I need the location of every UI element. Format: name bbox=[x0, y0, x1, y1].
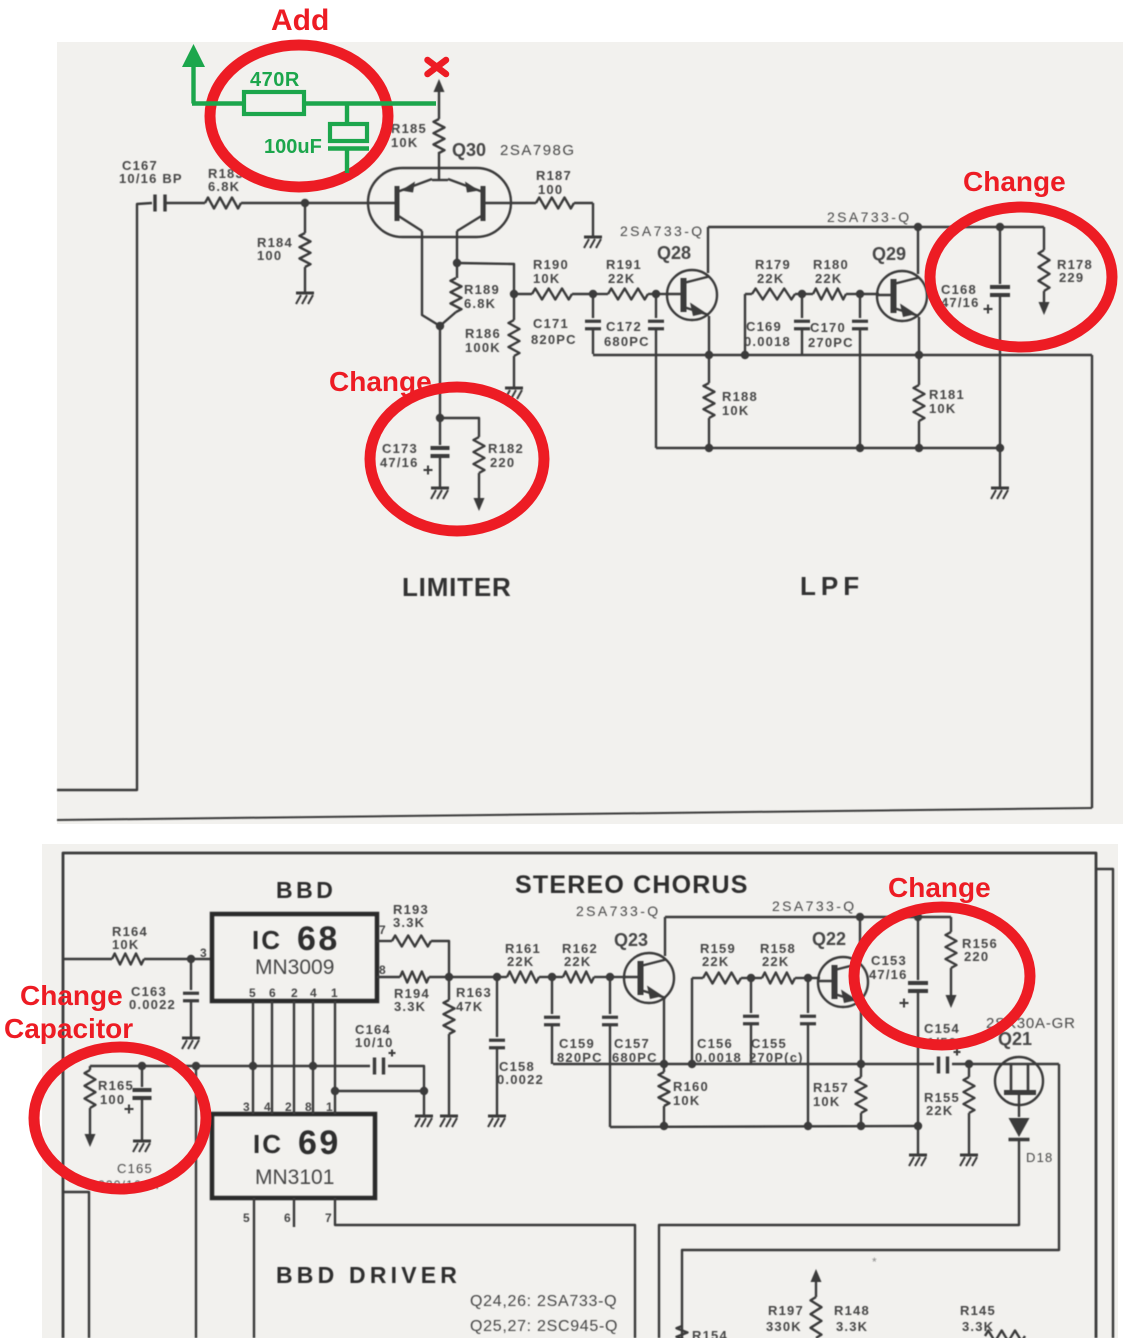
svg-text:R191: R191 bbox=[606, 257, 642, 272]
svg-text:10K: 10K bbox=[929, 401, 956, 416]
svg-text:0.0022: 0.0022 bbox=[129, 997, 176, 1012]
chorus feedback rail bbox=[553, 1063, 934, 1065]
svg-text:22K: 22K bbox=[702, 954, 729, 969]
svg-text:Change: Change bbox=[888, 872, 991, 903]
wire C172 node to Q28 base bbox=[656, 293, 669, 295]
svg-text:C169: C169 bbox=[746, 319, 782, 334]
ground below R155 bbox=[960, 1154, 978, 1157]
svg-text:3.3K: 3.3K bbox=[394, 999, 426, 1014]
wire R189 node to R190 branch bbox=[457, 263, 514, 294]
wire to Q23 base bbox=[610, 976, 626, 978]
wire R183 to Q30 bbox=[241, 202, 368, 204]
node limiter branch bbox=[436, 322, 444, 330]
resistor R159 22K bbox=[692, 977, 703, 979]
wire to C158 node bbox=[449, 976, 497, 978]
capacitor C165 220/16 BP electrolytic bbox=[141, 1066, 143, 1087]
node Q22 collector bbox=[856, 913, 864, 921]
svg-text:680PC: 680PC bbox=[612, 1050, 658, 1065]
ground below C164 branch bbox=[415, 1115, 433, 1118]
svg-text:R189: R189 bbox=[464, 282, 500, 297]
svg-text:LIMITER: LIMITER bbox=[402, 572, 512, 602]
resistor R158 22K bbox=[751, 977, 762, 979]
svg-text:2SA733-Q: 2SA733-Q bbox=[772, 898, 857, 914]
node C169 junction bbox=[798, 290, 806, 298]
ground below bottom rail bbox=[999, 448, 1001, 487]
svg-text:Q24,26: 2SA733-Q: Q24,26: 2SA733-Q bbox=[470, 1293, 617, 1310]
lower sheet frame bbox=[63, 853, 1096, 1338]
svg-text:100: 100 bbox=[538, 182, 563, 197]
red ellipse around R165/C165 bbox=[34, 1047, 206, 1189]
resistor R179 22K bbox=[745, 293, 752, 295]
svg-text:R145: R145 bbox=[960, 1303, 996, 1318]
svg-text:R179: R179 bbox=[755, 257, 791, 272]
wire Q21 drain right edge down-left bbox=[682, 1064, 1059, 1338]
svg-text:IC: IC bbox=[252, 925, 282, 955]
LPF feedback rail bbox=[593, 354, 1092, 356]
svg-text:Capacitor: Capacitor bbox=[4, 1013, 133, 1044]
svg-text:Q23: Q23 bbox=[614, 930, 648, 950]
svg-text:7: 7 bbox=[325, 1211, 333, 1225]
red ellipse around C153/R156 bbox=[854, 907, 1030, 1045]
bottom separator line of upper sheet bbox=[57, 808, 1092, 820]
svg-text:C165: C165 bbox=[117, 1161, 153, 1176]
svg-text:2SA733-Q: 2SA733-Q bbox=[620, 223, 705, 239]
node C168 bottom / ground bbox=[996, 444, 1004, 452]
node C157 junction bbox=[606, 973, 614, 981]
wire D18 down-left to LFO bbox=[659, 1141, 1019, 1338]
red ellipse around C173/R182 bbox=[370, 387, 544, 531]
svg-text:6: 6 bbox=[284, 1211, 292, 1225]
svg-text:R180: R180 bbox=[813, 257, 849, 272]
node C159 junction bbox=[548, 973, 556, 981]
svg-text:680PC: 680PC bbox=[604, 334, 650, 349]
svg-text:22K: 22K bbox=[815, 271, 842, 286]
IC69 MN3101 box bbox=[212, 1114, 375, 1198]
capacitor C164 10/10 on rail bbox=[373, 1058, 376, 1075]
svg-text:270PC: 270PC bbox=[808, 335, 854, 350]
resistor R190 10K bbox=[514, 293, 532, 295]
node C153 on lower rail bbox=[914, 1122, 922, 1130]
svg-text:R182: R182 bbox=[488, 441, 524, 456]
resistor R183 6.8K bbox=[205, 198, 241, 209]
wire Q30 left collector down to limiter node bbox=[422, 231, 440, 326]
node output line top bbox=[192, 1062, 200, 1070]
resistor R197 330K with up arrow bbox=[815, 1280, 817, 1297]
wire to Q22 base bbox=[808, 977, 820, 979]
svg-text:100K: 100K bbox=[465, 340, 501, 355]
svg-text:R165: R165 bbox=[98, 1078, 134, 1093]
diode D18 bbox=[1009, 1118, 1030, 1137]
node Q29 collector on rail bbox=[914, 223, 922, 231]
ground below C163 bbox=[182, 1037, 200, 1040]
IC68 MN3009 box bbox=[212, 914, 377, 1001]
svg-text:100uF: 100uF bbox=[264, 136, 322, 158]
green wire to 470R bbox=[192, 101, 243, 105]
svg-text:BBD: BBD bbox=[276, 877, 336, 903]
IC69 bottom pin lines bbox=[253, 1198, 255, 1338]
resistor R157 10K bbox=[860, 1064, 862, 1077]
svg-text:2SA798G: 2SA798G bbox=[500, 142, 576, 159]
svg-text:C170: C170 bbox=[810, 320, 846, 335]
wire Q28 collector to top rail bbox=[707, 227, 709, 273]
svg-text:22K: 22K bbox=[564, 954, 591, 969]
node rail riser chorus bbox=[688, 1060, 696, 1068]
green capacitor 100uF bbox=[345, 104, 349, 125]
svg-text:MN3009: MN3009 bbox=[255, 956, 334, 979]
resistor R162 22K bbox=[552, 976, 563, 978]
node R181 bottom bbox=[915, 444, 923, 452]
svg-text:47K: 47K bbox=[456, 999, 483, 1014]
node Q28 emitter on feedback rail bbox=[705, 351, 713, 359]
capacitor C155 270P(c) bbox=[807, 978, 809, 1013]
svg-text:*: * bbox=[872, 1255, 878, 1269]
svg-text:820PC: 820PC bbox=[531, 332, 577, 347]
scan background lower sheet bbox=[42, 844, 1118, 1338]
wire Q22 collector to rail bbox=[859, 917, 861, 960]
ground below C165 bbox=[133, 1140, 151, 1143]
Q30 left half transistor bbox=[395, 186, 400, 221]
capacitor C153 47/16 electrolytic bbox=[917, 917, 919, 980]
svg-text:47/16: 47/16 bbox=[869, 967, 908, 982]
svg-text:22K: 22K bbox=[926, 1103, 953, 1118]
svg-text:7: 7 bbox=[379, 923, 387, 937]
wire stub lower left bbox=[63, 1192, 89, 1338]
dual transistor Q30 2SA798G outline bbox=[368, 168, 511, 237]
svg-text:100: 100 bbox=[100, 1092, 125, 1107]
resistor R182 220 with arrow bbox=[440, 418, 479, 437]
svg-text:22K: 22K bbox=[762, 954, 789, 969]
svg-text:4: 4 bbox=[310, 986, 318, 1000]
svg-text:C157: C157 bbox=[614, 1036, 650, 1051]
node input/R184 junction bbox=[301, 199, 309, 207]
wire Q30 right collector to R189 bbox=[456, 231, 458, 263]
resistor R181 10K bbox=[918, 355, 920, 385]
wire output line down bbox=[195, 1066, 197, 1338]
resistor R188 10K bbox=[708, 355, 710, 383]
svg-text:Q29: Q29 bbox=[872, 244, 906, 264]
node R165 top rail bbox=[138, 1062, 146, 1070]
wire rail riser to R159 bbox=[691, 978, 693, 1064]
BBD bias rail bbox=[90, 1065, 370, 1067]
svg-text:10/10: 10/10 bbox=[355, 1035, 394, 1050]
resistor R163 47K bbox=[448, 977, 450, 1000]
red X mark bbox=[428, 60, 447, 74]
green wire 470R to R185 bbox=[304, 101, 436, 105]
svg-text:10K: 10K bbox=[673, 1093, 700, 1108]
JFET Q21 2SK30A-GR bbox=[995, 1057, 1043, 1105]
node C163 junction bbox=[187, 955, 195, 963]
svg-text:1: 1 bbox=[326, 1100, 334, 1114]
svg-text:2: 2 bbox=[291, 986, 299, 1000]
node R157 bottom bbox=[857, 1122, 865, 1130]
svg-text:0.0018: 0.0018 bbox=[744, 334, 791, 349]
svg-text:2: 2 bbox=[285, 1100, 293, 1114]
svg-text:R197: R197 bbox=[768, 1303, 804, 1318]
svg-text:Add: Add bbox=[271, 4, 329, 37]
svg-text:Q28: Q28 bbox=[657, 243, 691, 263]
svg-text:6.8K: 6.8K bbox=[208, 179, 240, 194]
capacitor C157 680PC bbox=[609, 977, 611, 1014]
resistor R156 220 with arrow bbox=[946, 932, 957, 968]
svg-text:5: 5 bbox=[243, 1211, 251, 1225]
svg-text:69: 69 bbox=[298, 1124, 341, 1162]
svg-text:0.0022: 0.0022 bbox=[497, 1072, 544, 1087]
node C153 top on rail bbox=[914, 913, 922, 921]
svg-text:Change: Change bbox=[963, 166, 1066, 197]
wire Q23 emitter down bbox=[663, 999, 665, 1064]
node pin5 on rail bbox=[249, 1062, 257, 1070]
node C164 ground line bbox=[420, 1087, 428, 1095]
Q30 right half transistor bbox=[481, 186, 486, 221]
svg-text:R157: R157 bbox=[813, 1080, 849, 1095]
node C168 top on rail bbox=[996, 223, 1004, 231]
svg-text:3.3K: 3.3K bbox=[836, 1319, 868, 1334]
svg-text:5: 5 bbox=[249, 986, 257, 1000]
svg-text:C173: C173 bbox=[382, 441, 418, 456]
node R189 top bbox=[453, 259, 461, 267]
capacitor C167 10/16 BP bbox=[153, 195, 156, 212]
capacitor C168 47/16 electrolytic bbox=[999, 227, 1001, 284]
svg-text:C171: C171 bbox=[533, 316, 569, 331]
resistor R161 22K bbox=[497, 976, 507, 978]
node C155 bottom bbox=[804, 1122, 812, 1130]
svg-text:10K: 10K bbox=[722, 403, 749, 418]
svg-text:220: 220 bbox=[964, 949, 989, 964]
svg-text:270P(c): 270P(c) bbox=[749, 1050, 804, 1065]
wire pin1 branch to C164 ground line bbox=[335, 1090, 424, 1092]
ground below R163 bbox=[440, 1115, 458, 1118]
green resistor 470R bbox=[244, 92, 304, 114]
svg-text:47/16: 47/16 bbox=[941, 295, 980, 310]
svg-text:10K: 10K bbox=[391, 135, 418, 150]
svg-text:3: 3 bbox=[200, 946, 208, 960]
resistor R187 100 bbox=[511, 202, 536, 204]
capacitor C171 820PC bbox=[592, 294, 594, 318]
node Q29 emitter bbox=[915, 351, 923, 359]
svg-text:R148: R148 bbox=[834, 1303, 870, 1318]
svg-text:330K: 330K bbox=[766, 1319, 802, 1334]
node C172 junction bbox=[652, 290, 660, 298]
svg-text:MN3101: MN3101 bbox=[255, 1166, 334, 1189]
resistor R186 100K bbox=[513, 294, 515, 320]
svg-text:R190: R190 bbox=[533, 257, 569, 272]
LPF bottom rail bbox=[656, 447, 1001, 449]
svg-text:LPF: LPF bbox=[800, 571, 864, 601]
wire Q22 emitter down bbox=[860, 1003, 862, 1064]
svg-text:Q25,27: 2SC945-Q: Q25,27: 2SC945-Q bbox=[470, 1318, 618, 1335]
ground below C173 bbox=[431, 487, 449, 490]
svg-text:R185: R185 bbox=[391, 121, 427, 136]
chorus top rail bbox=[665, 916, 951, 918]
svg-text:10K: 10K bbox=[533, 271, 560, 286]
svg-text:IC: IC bbox=[253, 1129, 283, 1159]
wire Q23 collector to chorus top rail bbox=[664, 917, 666, 956]
resistor R154 partial bbox=[677, 1326, 688, 1338]
svg-text:6: 6 bbox=[269, 986, 277, 1000]
svg-text:10K: 10K bbox=[112, 937, 139, 952]
red ellipse around added circuit bbox=[210, 45, 388, 187]
node C155 junction bbox=[804, 974, 812, 982]
node C170 junction bbox=[856, 290, 864, 298]
svg-text:6.8K: 6.8K bbox=[464, 296, 496, 311]
transistor Q22 2SA733-Q bbox=[818, 957, 868, 1007]
capacitor C159 820PC bbox=[551, 977, 553, 1014]
svg-text:220: 220 bbox=[490, 455, 515, 470]
capacitor C173 47/16 electrolytic bbox=[439, 418, 441, 445]
node R193/R194/R163 junction bbox=[445, 973, 453, 981]
svg-text:Q30: Q30 bbox=[452, 140, 486, 160]
Q30 joined emitters to R185 bbox=[432, 179, 448, 181]
node C173/R182 junction bbox=[436, 414, 444, 422]
resistor R180 22K bbox=[802, 293, 813, 295]
resistor R164 10K bbox=[63, 958, 112, 960]
svg-text:8: 8 bbox=[379, 963, 387, 977]
svg-text:10/16 BP: 10/16 BP bbox=[119, 171, 183, 186]
node C156 junction bbox=[747, 974, 755, 982]
second sheet edge top right bbox=[1097, 869, 1113, 1338]
ground below R186 bbox=[505, 387, 523, 390]
ground below R187 bbox=[592, 203, 594, 236]
capacitor C163 0.0022 bbox=[190, 959, 192, 990]
node R155 top bbox=[965, 1060, 973, 1068]
svg-text:C172: C172 bbox=[606, 319, 642, 334]
IC68-IC69 pin bus lines bbox=[252, 1001, 254, 1114]
svg-text:C159: C159 bbox=[559, 1036, 595, 1051]
node R160 bottom bbox=[660, 1122, 668, 1130]
svg-text:C155: C155 bbox=[751, 1036, 787, 1051]
svg-text:820PC: 820PC bbox=[557, 1050, 603, 1065]
svg-text:R186: R186 bbox=[465, 326, 501, 341]
wire C167 to R183 bbox=[166, 202, 205, 204]
svg-text:Change: Change bbox=[20, 980, 123, 1011]
svg-text:3.3K: 3.3K bbox=[393, 915, 425, 930]
LPF top rail bbox=[708, 226, 1044, 228]
svg-text:R163: R163 bbox=[456, 985, 492, 1000]
wire rail right edge down bbox=[1091, 355, 1093, 808]
capacitor C156 0.0018 bbox=[750, 978, 752, 1013]
svg-text:47/16: 47/16 bbox=[380, 455, 419, 470]
svg-text:C154: C154 bbox=[924, 1021, 960, 1036]
capacitor C172 680PC bbox=[655, 294, 657, 318]
svg-text:Q22: Q22 bbox=[812, 929, 846, 949]
svg-text:R181: R181 bbox=[929, 387, 965, 402]
capacitor C154 1/50 electrolytic on rail bbox=[937, 1057, 940, 1074]
svg-text:8: 8 bbox=[305, 1100, 313, 1114]
svg-text:R160: R160 bbox=[673, 1079, 709, 1094]
resistor R178 229 with arrow bbox=[1043, 227, 1045, 250]
svg-text:22K: 22K bbox=[507, 954, 534, 969]
wire C164 to ground branch bbox=[388, 1066, 424, 1115]
wire Q29 collector to top rail bbox=[917, 227, 919, 274]
svg-text:10K: 10K bbox=[813, 1094, 840, 1109]
svg-text:22K: 22K bbox=[757, 271, 784, 286]
node R188 bottom bbox=[705, 444, 713, 452]
resistor R155 22K bbox=[968, 1064, 970, 1077]
node C171 junction bbox=[589, 290, 597, 298]
ground below R184 bbox=[296, 292, 314, 295]
svg-text:22K: 22K bbox=[608, 271, 635, 286]
svg-text:68: 68 bbox=[297, 920, 340, 958]
svg-text:3: 3 bbox=[243, 1100, 251, 1114]
resistor R184 100 bbox=[304, 203, 306, 233]
red ellipse around C168/R178 bbox=[930, 207, 1112, 347]
capacitor C169 0.0018 bbox=[801, 294, 803, 318]
svg-text:STEREO CHORUS: STEREO CHORUS bbox=[515, 871, 749, 899]
svg-text:D18: D18 bbox=[1026, 1150, 1053, 1165]
svg-text:R187: R187 bbox=[536, 168, 572, 183]
svg-text:4: 4 bbox=[264, 1100, 272, 1114]
svg-text:BBD DRIVER: BBD DRIVER bbox=[276, 1262, 461, 1288]
svg-text:229: 229 bbox=[1059, 270, 1084, 285]
svg-text:R154: R154 bbox=[692, 1328, 728, 1338]
resistor R191 22K bbox=[593, 293, 608, 295]
svg-text:2SA733-Q: 2SA733-Q bbox=[576, 903, 661, 919]
node Q22 emitter bbox=[857, 1060, 865, 1068]
transistor Q28 2SA733-Q bbox=[667, 270, 717, 320]
svg-text:2SA733-Q: 2SA733-Q bbox=[827, 209, 912, 225]
svg-text:0.0018: 0.0018 bbox=[695, 1050, 742, 1065]
capacitor C158 0.0022 bbox=[496, 977, 498, 1037]
ground below C158 bbox=[488, 1115, 506, 1118]
svg-text:470R: 470R bbox=[250, 69, 300, 91]
node rail riser bbox=[741, 351, 749, 359]
resistor R189 6.8K bbox=[456, 263, 458, 278]
resistor R145 partial zigzag bbox=[985, 1331, 1025, 1338]
svg-text:R188: R188 bbox=[722, 389, 758, 404]
node pin4 on rail bbox=[309, 1062, 317, 1070]
node R190/R186 junction bbox=[510, 290, 518, 298]
resistor R165 100 with arrow bbox=[89, 1066, 91, 1070]
wire rail corner to R156 bbox=[950, 917, 952, 932]
wire Q29 emitter down bbox=[918, 317, 920, 355]
svg-text:1: 1 bbox=[331, 986, 339, 1000]
wire Q28 emitter down bbox=[708, 316, 710, 355]
green supply arrow bbox=[191, 65, 195, 104]
transistor Q23 2SA733-Q bbox=[624, 953, 674, 1003]
wire input left vertical + C167 row bbox=[57, 203, 152, 790]
wire down to C173/R182 bbox=[439, 326, 441, 418]
wire rail riser to R179 bbox=[744, 294, 746, 355]
svg-text:Change: Change bbox=[329, 366, 432, 397]
node C170 bottom bbox=[856, 444, 864, 452]
svg-text:C156: C156 bbox=[697, 1036, 733, 1051]
node Q23 emitter on rail bbox=[660, 1060, 668, 1068]
svg-text:C153: C153 bbox=[871, 953, 907, 968]
resistor R185 10K with arrow to supply bbox=[438, 90, 440, 119]
resistor R160 10K bbox=[663, 1064, 665, 1072]
svg-text:100: 100 bbox=[257, 248, 282, 263]
node pin1 branch bbox=[331, 1087, 339, 1095]
node C158 junction bbox=[493, 973, 501, 981]
transistor Q29 2SA733-Q bbox=[877, 271, 927, 321]
capacitor C170 270PC bbox=[859, 294, 861, 318]
wire C170 node to Q29 base bbox=[860, 293, 879, 295]
ground below C153 bbox=[909, 1154, 927, 1157]
chorus lower rail bbox=[610, 1126, 918, 1127]
